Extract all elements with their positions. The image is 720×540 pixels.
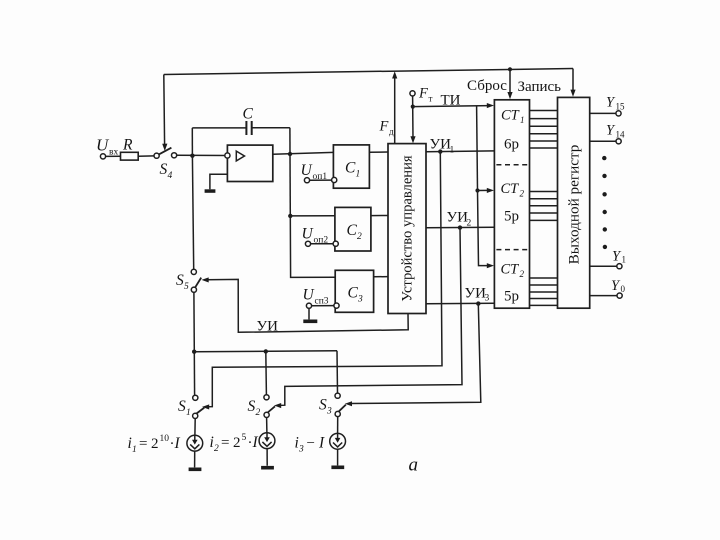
arrowhead TI into counter — [487, 103, 494, 108]
svg-text:S: S — [178, 398, 186, 415]
arrowhead УИ1 at S1 — [202, 404, 209, 409]
terminal Y14 — [616, 139, 621, 144]
svg-text:1: 1 — [186, 408, 191, 418]
svg-text:I: I — [174, 435, 181, 452]
wire TI vertical to CT2b — [478, 191, 490, 266]
switch S1 — [193, 395, 198, 400]
svg-text:C: C — [345, 160, 356, 177]
wire УИ2 to counter — [426, 226, 494, 229]
svg-text:C: C — [348, 285, 359, 302]
ground i1 — [189, 468, 202, 472]
wire УИ3 to counter — [426, 302, 494, 305]
wire current source bus — [194, 350, 337, 353]
node УИ2 branch — [458, 225, 462, 229]
comparator C2 box — [335, 207, 371, 251]
node op-amp output — [288, 152, 292, 156]
svg-text:Запись: Запись — [518, 79, 562, 95]
svg-text:S: S — [176, 272, 184, 289]
svg-text:т: т — [429, 94, 433, 104]
wire Ft down into control unit — [412, 96, 414, 139]
svg-text:2: 2 — [520, 269, 525, 279]
node dot Сброс branch — [508, 67, 512, 71]
svg-text:сп3: сп3 — [315, 297, 329, 307]
ground op-amp — [205, 189, 216, 193]
svg-text:2: 2 — [357, 232, 362, 242]
svg-text:CT: CT — [501, 181, 520, 197]
svg-text:2: 2 — [467, 219, 472, 229]
svg-text:УИ: УИ — [430, 137, 452, 153]
node bus S2 branch — [264, 349, 268, 353]
wire TI vertical distribution — [476, 106, 479, 191]
svg-text:5: 5 — [184, 282, 189, 292]
wire to C2 input — [290, 215, 335, 217]
svg-text:6р: 6р — [504, 137, 519, 153]
arrowhead УИ2 at S2 — [274, 403, 281, 408]
svg-text:Сброс: Сброс — [467, 78, 507, 94]
svg-text:CT: CT — [501, 262, 520, 278]
wire down to C3 input — [290, 216, 335, 278]
svg-text:=: = — [139, 436, 147, 452]
svg-text:=: = — [221, 435, 229, 451]
capacitor C plates — [245, 121, 247, 135]
wire capacitor right lead — [252, 127, 290, 129]
svg-text:S: S — [248, 398, 256, 415]
svg-text:5р: 5р — [504, 209, 519, 225]
terminal Y1 — [617, 264, 622, 269]
wire Fd from control unit up — [394, 77, 396, 144]
node TI junction — [411, 105, 415, 109]
switch S4 — [154, 153, 159, 158]
svg-text:14: 14 — [616, 130, 626, 140]
switch S5 — [191, 269, 196, 274]
comparator C3 ref input circle — [334, 303, 339, 308]
wire Запись drop into register — [572, 69, 574, 92]
svg-text:1: 1 — [622, 255, 627, 265]
switch S2 — [264, 395, 269, 400]
resistor R — [121, 152, 139, 160]
svg-text:−: − — [307, 436, 315, 452]
wire C3 output to control unit — [374, 276, 388, 278]
wire capacitor to output node — [289, 128, 291, 154]
svg-text:1: 1 — [450, 146, 455, 156]
svg-text:2: 2 — [214, 444, 219, 454]
node УИ3 branch — [476, 301, 480, 305]
arrowhead Fd up — [392, 71, 397, 78]
node bus left — [192, 350, 196, 354]
wire C1 output to control unit — [369, 151, 388, 153]
terminal Y15 — [616, 111, 621, 116]
arrowhead into CT2a — [487, 188, 494, 193]
wire Uоп3 to C3 — [312, 305, 334, 307]
terminal Uоп1 — [304, 178, 309, 183]
comparator C1 box — [333, 145, 369, 188]
wire УИ2 route to S2 — [279, 228, 462, 406]
wire output Y15 — [590, 112, 616, 114]
comparator C3 box — [335, 270, 373, 312]
node УИ1 branch — [438, 149, 442, 153]
svg-text:3: 3 — [298, 445, 304, 455]
svg-text:оп1: оп1 — [313, 172, 328, 182]
svg-text:2: 2 — [256, 408, 261, 418]
wire Uоп3 ground lead — [308, 308, 310, 319]
arrowhead УИ at S5 — [202, 277, 209, 282]
wire bus drop to S3 — [336, 351, 339, 393]
node C2 branch — [288, 214, 292, 218]
wire summing node down to S5 — [192, 156, 193, 270]
wire comparator feed vertical — [289, 154, 291, 216]
switch S3 — [335, 393, 340, 398]
wire УИ1 route to S1 — [207, 152, 442, 407]
wire R to S4 — [138, 155, 154, 157]
svg-text:C: C — [347, 222, 358, 239]
current source i1 — [194, 419, 196, 436]
svg-text:0: 0 — [621, 284, 626, 294]
svg-text:1: 1 — [520, 115, 525, 125]
counter section divider 2 — [496, 249, 527, 251]
svg-text:S: S — [160, 161, 168, 178]
svg-text:15: 15 — [616, 102, 626, 112]
svg-text:a: a — [409, 455, 419, 476]
terminal Uоп2 — [305, 241, 310, 246]
svg-text:Y: Y — [606, 95, 616, 111]
svg-text:д: д — [389, 127, 394, 137]
output register box — [558, 97, 590, 308]
wire Сброс drop into counter — [509, 69, 511, 94]
svg-text:5: 5 — [242, 433, 247, 443]
current source i3 — [337, 417, 339, 434]
svg-text:Y: Y — [612, 249, 622, 265]
wire C2 output to control unit — [371, 215, 388, 217]
svg-text:УИ: УИ — [447, 210, 469, 226]
svg-text:3: 3 — [326, 407, 332, 417]
wire УИ3 route to S3 — [350, 304, 481, 404]
svg-text:вх: вх — [109, 148, 118, 158]
wire УИ route from control unit to S5 — [207, 279, 409, 332]
bus wires counter to register group 5p lower — [530, 278, 558, 305]
svg-text:Выходной регистр: Выходной регистр — [566, 145, 583, 265]
control unit box — [388, 144, 426, 314]
op-amp triangle symbol — [236, 151, 244, 161]
svg-text:1: 1 — [132, 445, 137, 455]
arrowhead Сброс — [507, 92, 512, 99]
arrowhead Ft into control unit — [410, 136, 415, 143]
svg-text:Y: Y — [606, 123, 616, 139]
wire bus drop to S2 — [265, 351, 268, 394]
svg-text:4: 4 — [168, 171, 173, 181]
svg-text:S: S — [319, 397, 327, 414]
wire branch into CT2a — [478, 189, 490, 191]
wire top feedback line Fd — [164, 69, 573, 75]
svg-text:ТИ: ТИ — [441, 93, 461, 109]
svg-text:УИ: УИ — [465, 286, 487, 302]
svg-text:CT: CT — [501, 108, 520, 124]
op-amp U1 box — [227, 145, 272, 181]
svg-text:2: 2 — [233, 435, 241, 451]
node TI branch CT2a — [475, 188, 479, 192]
counter box — [494, 100, 529, 308]
svg-text:3: 3 — [485, 294, 490, 304]
svg-text:2: 2 — [520, 189, 525, 199]
wire Uоп2 to C2 — [311, 243, 334, 245]
wire output Y14 — [590, 140, 616, 142]
svg-text:U: U — [96, 136, 110, 155]
svg-text:Устройство управления: Устройство управления — [400, 155, 416, 302]
bus wires counter to register group 6p — [530, 111, 558, 149]
wire output Y0 — [590, 295, 617, 297]
bus wires counter to register group 5p upper — [530, 192, 558, 221]
arrowhead into CT2b — [487, 263, 494, 268]
terminal Y0 — [617, 293, 622, 298]
ground Uоп3 — [303, 320, 317, 324]
arrowhead УИ3 at S3 — [345, 401, 352, 406]
svg-text:оп2: оп2 — [314, 236, 329, 246]
wire Uоп1 to C1 — [310, 179, 332, 181]
arrowhead onto S4 — [162, 144, 167, 151]
arrowhead Запись — [570, 90, 575, 97]
svg-text:F: F — [418, 86, 428, 102]
svg-text:2: 2 — [151, 436, 159, 452]
wire op-amp ground lead — [210, 174, 228, 189]
svg-text:1: 1 — [356, 170, 361, 180]
svg-text:C: C — [243, 106, 254, 123]
comparator C1 ref input circle — [332, 177, 337, 182]
node summing junction — [190, 154, 194, 158]
terminal Uвх — [100, 154, 105, 159]
terminal Uоп3 — [306, 303, 311, 308]
svg-text:Y: Y — [611, 278, 621, 294]
op-amp inverting input circle — [225, 153, 230, 158]
wire Uвх to R — [106, 155, 121, 157]
terminal Ft — [410, 91, 415, 96]
wire output Y1 — [590, 265, 617, 267]
current source i2 — [266, 418, 268, 433]
ground i3 — [331, 466, 344, 470]
svg-text:F: F — [379, 119, 389, 135]
svg-text:10: 10 — [160, 434, 170, 444]
svg-text:I: I — [318, 435, 325, 452]
ground i2 — [261, 466, 274, 470]
wire TI to counter — [413, 106, 490, 107]
wire capacitor left lead — [192, 127, 246, 129]
svg-text:R: R — [122, 137, 133, 154]
svg-text:УИ: УИ — [257, 319, 279, 335]
wire УИ1 to counter — [426, 150, 494, 153]
svg-text:5р: 5р — [504, 289, 519, 305]
wire S5 down to bus — [193, 292, 196, 395]
ellipsis dots outputs — [602, 156, 607, 249]
svg-text:I: I — [252, 434, 259, 451]
counter section divider 1 — [496, 164, 527, 166]
comparator C2 ref input circle — [333, 241, 338, 246]
wire capacitor branch up — [191, 128, 193, 156]
wire S4 to summing node and op-amp — [177, 154, 228, 156]
svg-text:3: 3 — [357, 295, 363, 305]
wire S4 control drop — [163, 75, 166, 146]
wire op-amp output — [273, 152, 334, 154]
